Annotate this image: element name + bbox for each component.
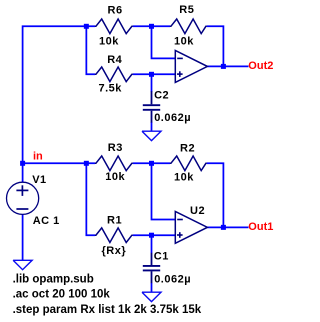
wire top op-amp output to Out2 <box>207 65 248 67</box>
svg-text:U2: U2 <box>190 205 205 217</box>
wire R2 right to Out1 vertical <box>207 163 224 227</box>
op-amp top (Out2) <box>175 50 207 82</box>
svg-text:C1: C1 <box>154 251 169 263</box>
wire B column: junction B1 down to minus input of top op-amp <box>152 26 176 58</box>
wire A column bottom: junction A2 down to R1 row <box>86 163 95 235</box>
resistor R2 <box>170 156 207 171</box>
wire V1 bottom to ground <box>22 214 24 260</box>
svg-text:R1: R1 <box>107 215 122 227</box>
wire B column bottom: junction B2 down to minus input of U2 <box>152 163 176 219</box>
wire R5 right to Out2 vertical <box>207 26 224 66</box>
wire R4 right to op-amp plus input <box>133 73 175 75</box>
svg-text:0.062µ: 0.062µ <box>154 274 191 286</box>
wire A column top: junction A1 down to R4 row <box>86 26 95 74</box>
svg-text:10k: 10k <box>105 171 125 183</box>
wire left vertical from top row to in node <box>23 26 95 163</box>
wire V1 top stub <box>22 163 24 182</box>
wire R1 right to U2 plus input <box>133 234 175 236</box>
junction Out2 <box>221 64 226 69</box>
resistor R3 <box>95 156 133 171</box>
wire C1 bottom to ground <box>151 283 153 292</box>
ground (V1) <box>13 260 32 269</box>
svg-text:10k: 10k <box>174 35 194 47</box>
resistor R6 <box>95 19 133 34</box>
ground (C2) <box>142 131 161 140</box>
svg-text:V1: V1 <box>32 174 46 186</box>
svg-text:0.062µ: 0.062µ <box>154 112 191 124</box>
wire row2 between R3 and R2 <box>133 162 170 164</box>
junction A1 <box>84 24 89 29</box>
svg-text:{Rx}: {Rx} <box>102 245 127 257</box>
svg-text:AC 1: AC 1 <box>33 215 60 227</box>
svg-text:in: in <box>33 151 43 163</box>
wire C2 bottom to ground <box>151 122 153 131</box>
svg-text:10k: 10k <box>174 171 194 183</box>
junction in node <box>20 161 25 166</box>
junction B2 <box>149 161 154 166</box>
svg-text:.lib opamp.sub: .lib opamp.sub <box>13 274 94 286</box>
capacitor C2 <box>143 91 160 122</box>
svg-text:R6: R6 <box>108 5 123 17</box>
capacitor C1 <box>143 253 160 283</box>
resistor R1 <box>95 228 133 243</box>
junction C1 top <box>149 233 154 238</box>
svg-text:7.5k: 7.5k <box>99 83 123 95</box>
svg-text:Out2: Out2 <box>248 60 273 72</box>
svg-text:.ac oct 20 100 10k: .ac oct 20 100 10k <box>13 289 111 301</box>
wire top row between R6 and R5 <box>133 25 170 27</box>
svg-text:.step param Rx list 1k 2k 3.75: .step param Rx list 1k 2k 3.75k 15k <box>13 304 202 316</box>
wire in row: in node to R3 <box>23 162 95 164</box>
svg-text:R5: R5 <box>179 4 194 16</box>
resistor R5 <box>170 19 207 34</box>
svg-text:Out1: Out1 <box>248 221 273 233</box>
wire C2 top stub <box>151 74 153 92</box>
junction A2 <box>84 161 89 166</box>
svg-text:C2: C2 <box>154 89 169 101</box>
junction Out1 <box>221 225 226 230</box>
svg-text:R2: R2 <box>180 142 195 154</box>
ground (C1) <box>142 292 161 301</box>
resistor R4 <box>95 67 133 82</box>
wire C1 top stub <box>151 235 153 253</box>
op-amp U2 <box>175 211 207 243</box>
svg-text:R4: R4 <box>107 54 122 66</box>
svg-text:10k: 10k <box>99 35 119 47</box>
voltage source V1 <box>7 182 39 214</box>
svg-text:R3: R3 <box>108 142 123 154</box>
junction C2 top <box>149 72 154 77</box>
wire U2 output to Out1 <box>207 226 248 228</box>
junction B1 <box>149 24 154 29</box>
